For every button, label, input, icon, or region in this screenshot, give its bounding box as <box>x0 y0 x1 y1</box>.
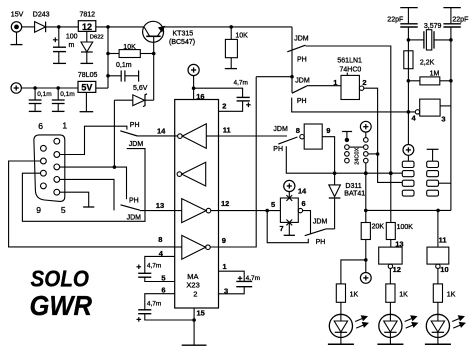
svg-text:8: 8 <box>296 126 300 135</box>
svg-text:22pF: 22pF <box>452 16 468 23</box>
svg-text:PH: PH <box>316 239 326 246</box>
svg-text:2,2K: 2,2K <box>420 59 435 66</box>
svg-text:12: 12 <box>221 199 229 208</box>
svg-text:22pF: 22pF <box>387 16 403 23</box>
svg-text:10: 10 <box>440 265 448 274</box>
svg-text:5V: 5V <box>81 82 92 92</box>
svg-text:(BC547): (BC547) <box>169 39 195 46</box>
svg-text:SOLO: SOLO <box>31 266 90 292</box>
svg-text:0,1m: 0,1m <box>37 91 51 98</box>
svg-text:0,1m: 0,1m <box>60 91 74 98</box>
svg-text:5,6V: 5,6V <box>133 85 148 92</box>
svg-text:2: 2 <box>193 289 197 298</box>
svg-text:PH: PH <box>297 98 307 105</box>
svg-text:PH: PH <box>130 122 140 129</box>
svg-text:1K: 1K <box>447 292 456 299</box>
svg-text:2: 2 <box>222 102 226 111</box>
svg-text:PH: PH <box>273 146 283 153</box>
svg-text:1: 1 <box>223 262 227 271</box>
svg-text:11: 11 <box>223 125 231 134</box>
svg-text:JDM: JDM <box>127 215 142 222</box>
svg-text:561LN1: 561LN1 <box>337 58 362 65</box>
svg-text:10K: 10K <box>235 33 248 40</box>
svg-text:13: 13 <box>156 201 164 210</box>
svg-text:X23: X23 <box>186 281 199 290</box>
svg-text:1K: 1K <box>350 292 359 299</box>
svg-text:JDM: JDM <box>294 36 309 43</box>
svg-text:1K: 1K <box>399 292 408 299</box>
svg-text:6: 6 <box>302 199 306 208</box>
svg-text:2: 2 <box>362 78 366 87</box>
svg-text:3: 3 <box>441 115 445 124</box>
svg-text:4,7m: 4,7m <box>147 300 161 307</box>
svg-text:12: 12 <box>82 22 92 32</box>
svg-text:MA: MA <box>187 272 198 281</box>
svg-text:7812: 7812 <box>80 11 96 18</box>
svg-text:11: 11 <box>439 235 447 244</box>
svg-text:JDM: JDM <box>295 77 310 84</box>
svg-text:78L05: 78L05 <box>78 72 98 79</box>
svg-text:4,7m: 4,7m <box>246 275 260 282</box>
svg-text:9: 9 <box>36 205 41 215</box>
svg-text:1: 1 <box>333 78 337 87</box>
svg-text:15: 15 <box>197 309 205 318</box>
svg-text:12: 12 <box>393 265 401 274</box>
svg-text:8: 8 <box>158 235 162 244</box>
svg-text:1: 1 <box>62 121 67 131</box>
svg-text:15V: 15V <box>11 11 24 18</box>
svg-text:D622: D622 <box>90 35 104 41</box>
svg-text:20K: 20K <box>372 223 385 230</box>
svg-text:4,7m: 4,7m <box>147 262 161 269</box>
svg-text:KT315: KT315 <box>173 30 194 37</box>
svg-text:D243: D243 <box>33 11 50 18</box>
svg-text:PH: PH <box>129 197 139 204</box>
svg-text:6: 6 <box>38 121 43 131</box>
svg-text:7: 7 <box>280 224 284 233</box>
svg-text:5: 5 <box>61 205 66 215</box>
svg-text:9: 9 <box>222 236 226 245</box>
svg-text:m: m <box>69 42 75 49</box>
svg-text:0,1m: 0,1m <box>116 62 132 69</box>
svg-text:14: 14 <box>298 187 307 196</box>
svg-text:3,579: 3,579 <box>424 23 442 30</box>
svg-text:BAT41: BAT41 <box>344 191 365 198</box>
svg-text:14: 14 <box>157 127 166 136</box>
svg-text:5: 5 <box>271 200 275 209</box>
svg-text:PH: PH <box>297 57 307 64</box>
svg-text:100: 100 <box>66 34 78 41</box>
svg-text:74HC0: 74HC0 <box>340 67 362 74</box>
svg-text:JDM: JDM <box>313 219 328 226</box>
svg-text:GWR: GWR <box>30 290 93 321</box>
svg-text:D311: D311 <box>345 183 361 190</box>
svg-text:10K: 10K <box>123 44 136 51</box>
svg-text:24C0X: 24C0X <box>355 147 361 164</box>
svg-text:100K: 100K <box>397 224 414 231</box>
svg-text:16: 16 <box>196 92 204 101</box>
svg-text:4,7m: 4,7m <box>234 79 248 86</box>
svg-text:13: 13 <box>395 239 403 248</box>
svg-text:JDM: JDM <box>273 126 288 133</box>
svg-text:6: 6 <box>161 285 165 294</box>
svg-text:9: 9 <box>326 126 330 135</box>
svg-text:JDM: JDM <box>129 141 144 148</box>
svg-text:1M: 1M <box>430 70 440 77</box>
